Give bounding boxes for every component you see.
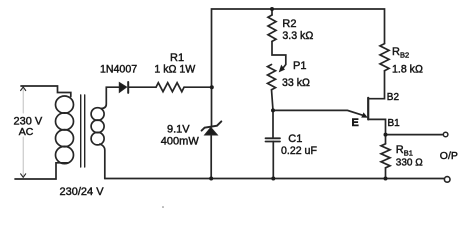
capacitor C1 top lead: [272, 110, 274, 138]
wire RB2 to B2: [368, 71, 384, 99]
node C1 bottom junction: [271, 177, 275, 181]
resistor R2: [268, 15, 276, 41]
transformer T1 primary winding: [56, 96, 74, 164]
emitter arrowhead: [362, 113, 368, 118]
svg-text:C1: C1: [288, 133, 302, 145]
svg-text:O/P: O/P: [440, 150, 458, 162]
svg-text:400mW: 400mW: [161, 135, 200, 147]
wire top AC input: [21, 86, 71, 97]
wire R2 to P1 hook: [272, 41, 286, 69]
svg-text:1N4007: 1N4007: [100, 64, 137, 76]
wire secondary bottom lead: [100, 144, 105, 179]
svg-text:9.1V: 9.1V: [167, 124, 190, 136]
wire B1 to RB1: [385, 135, 387, 144]
wire P1 to node E: [272, 90, 274, 111]
svg-text:33 kΩ: 33 kΩ: [282, 77, 310, 89]
svg-text:330 Ω: 330 Ω: [396, 158, 423, 169]
wire diode to R1: [128, 86, 156, 88]
resistor R1: [156, 83, 184, 92]
node zener bottom junction: [209, 177, 213, 181]
capacitor C1 bottom lead: [272, 142, 274, 179]
node E junction: [271, 108, 275, 112]
dimension arrow bottom head: [21, 174, 26, 178]
svg-text:P1: P1: [293, 60, 306, 72]
wire emitter: [273, 110, 363, 115]
wire bottom rail: [105, 178, 445, 180]
zener diode D2 lower lead: [210, 135, 212, 179]
svg-text:0.22 uF: 0.22 uF: [281, 145, 317, 157]
resistor RB2: [380, 44, 389, 71]
dimension arrow 230V line: [22, 89, 24, 176]
svg-text:R1: R1: [170, 52, 184, 64]
potentiometer P1 wiper arrowhead: [279, 65, 284, 72]
transformer T1 core: [81, 95, 85, 167]
svg-text:E: E: [352, 117, 359, 129]
dimension arrow top head: [21, 87, 26, 91]
svg-text:B2: B2: [387, 92, 400, 103]
wire B1 lead: [368, 119, 385, 134]
output terminal top: [443, 132, 448, 137]
wire R1 to node: [184, 86, 212, 88]
output terminal bottom: [444, 177, 450, 183]
wire B1 to output: [386, 134, 444, 136]
wire RB1 bottom lead: [385, 168, 387, 179]
resistor RB1: [381, 144, 390, 168]
wire bottom AC input: [15, 163, 68, 179]
svg-text:3.3 kΩ: 3.3 kΩ: [282, 30, 313, 42]
wire R2 top lead: [271, 9, 273, 15]
svg-text:1.8 kΩ: 1.8 kΩ: [392, 63, 423, 75]
diode D1 1N4007: [119, 82, 128, 93]
svg-text:230/24 V: 230/24 V: [60, 186, 105, 198]
node B1 output junction: [384, 133, 388, 137]
svg-text:R2: R2: [282, 18, 296, 30]
svg-text:1 kΩ 1W: 1 kΩ 1W: [154, 63, 195, 75]
zener diode D2 upper lead: [211, 87, 213, 127]
node R2 top junction: [270, 7, 274, 11]
wire secondary top lead: [101, 87, 119, 108]
wire left vertical and top rail: [212, 9, 385, 87]
potentiometer P1 body: [268, 65, 276, 90]
svg-text:B1: B1: [388, 118, 401, 129]
svg-text:RB1: RB1: [396, 144, 413, 158]
transformer T1 secondary winding: [91, 108, 104, 145]
transistor Q1 UJT bar: [367, 98, 369, 120]
capacitor C1 plates: [266, 138, 281, 141]
svg-text:RB2: RB2: [392, 46, 409, 60]
zener diode D2 cathode bar: [202, 121, 222, 130]
node RB1 bottom junction: [384, 177, 388, 181]
zener diode D2 anode triangle: [205, 127, 218, 135]
node R1-zener junction: [210, 85, 214, 89]
svg-text:AC: AC: [19, 126, 34, 138]
